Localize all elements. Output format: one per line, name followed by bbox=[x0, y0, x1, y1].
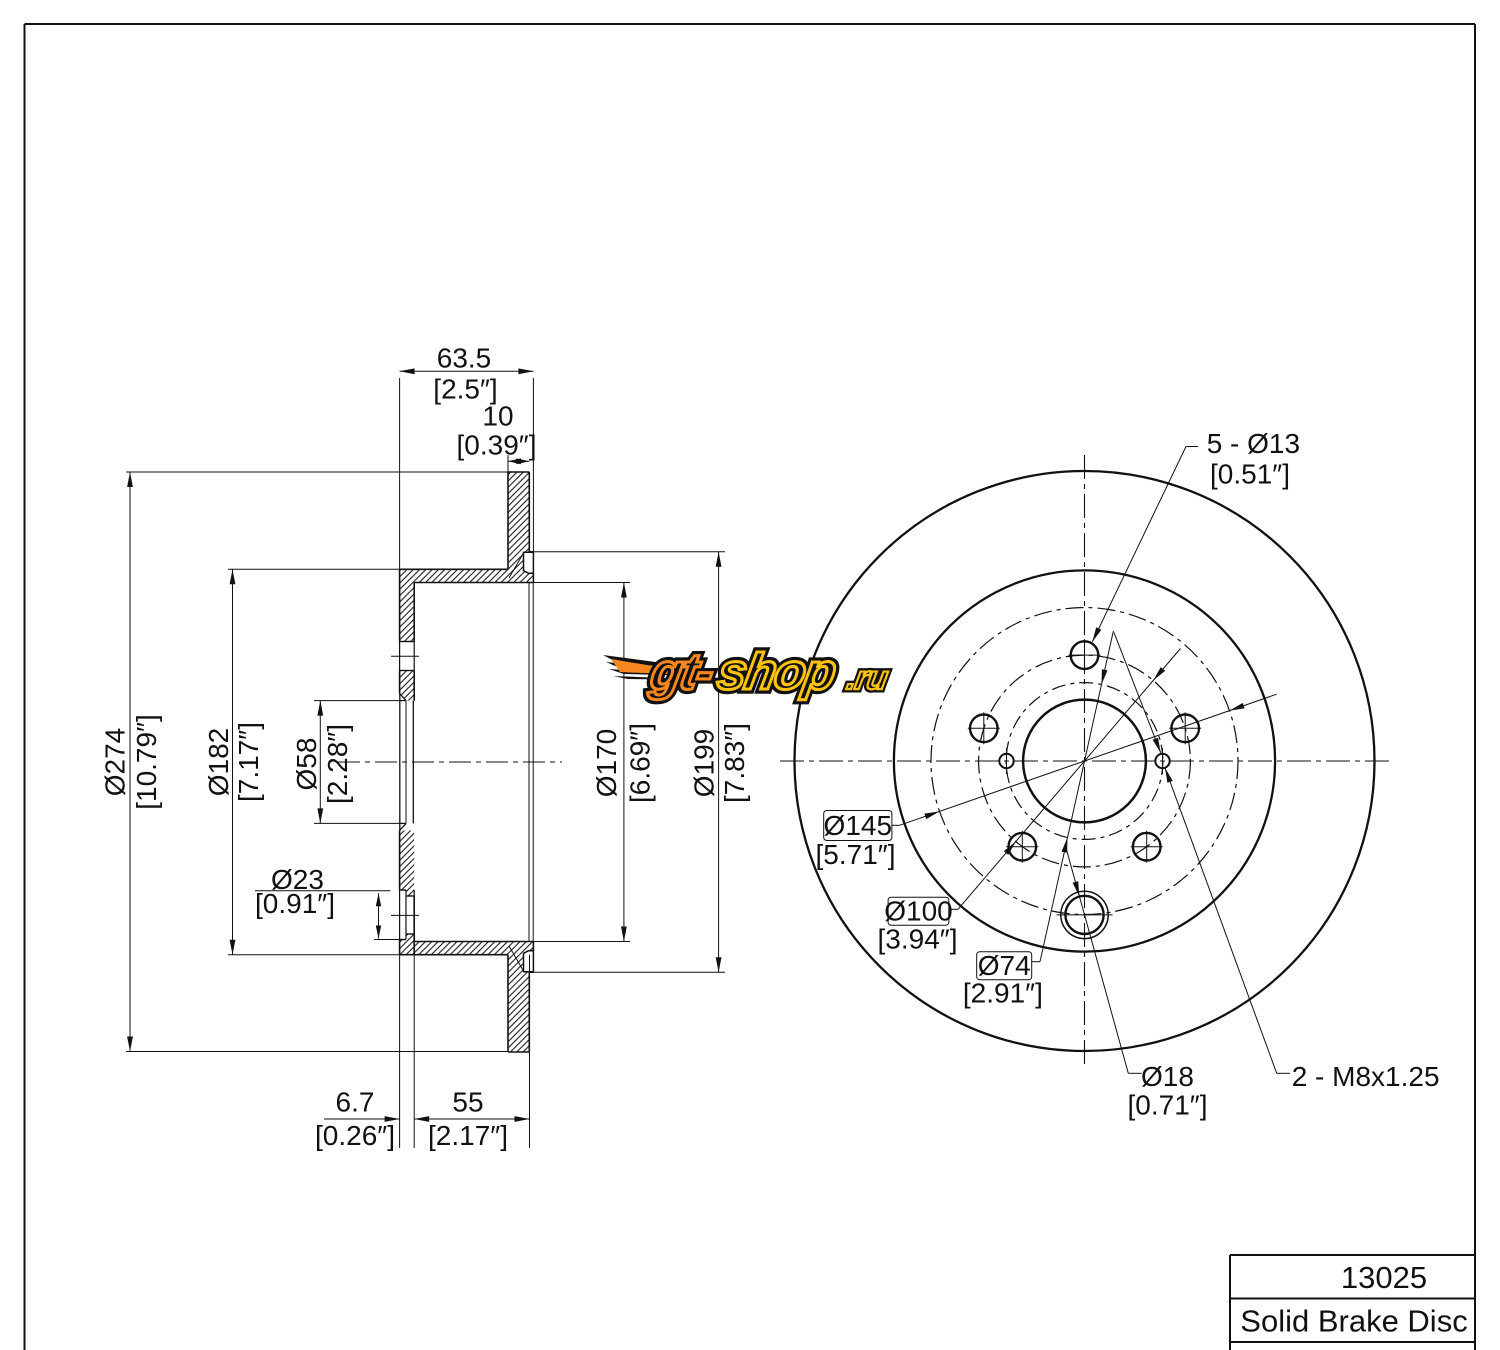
front: M8 service holes bbox=[999, 754, 1013, 768]
section: part outlines top half bbox=[508, 471, 529, 473]
svg-text:[0.91″]: [0.91″] bbox=[255, 888, 335, 919]
svg-text:Ø18: Ø18 bbox=[1141, 1061, 1194, 1092]
section: Ø18 hole centerline tick bbox=[391, 914, 419, 916]
dim Ø170 [6.69"] hat inner diameter bbox=[623, 583, 625, 942]
svg-text:Ø170: Ø170 bbox=[591, 729, 622, 798]
svg-text:Ø145: Ø145 bbox=[824, 810, 893, 841]
section: part outlines bottom half bbox=[508, 1051, 529, 1053]
section: lug bolt hole Ø13 cut (top) bbox=[400, 641, 415, 643]
svg-text:[2.28″]: [2.28″] bbox=[322, 724, 353, 804]
section: back-side groove (white notch, top) bbox=[524, 552, 534, 573]
svg-text:6.7: 6.7 bbox=[336, 1087, 375, 1118]
front: bolt circle Ø145 (dash-dot) bbox=[931, 608, 1238, 915]
svg-text:[6.69″]: [6.69″] bbox=[624, 723, 655, 803]
svg-text:shop: shop bbox=[714, 642, 840, 700]
front: label box Ø145 [5.71"] bbox=[824, 811, 892, 841]
svg-text:Ø199: Ø199 bbox=[689, 729, 720, 798]
section: Ø18 hole with Ø23 counterbore cut (bottom) bbox=[400, 889, 406, 891]
svg-text:[2.17″]: [2.17″] bbox=[428, 1120, 508, 1151]
svg-text:[5.71″]: [5.71″] bbox=[816, 839, 896, 870]
front: Ø100 dimension line bbox=[958, 649, 1181, 910]
dim 63.5 [2.5"] overall width bbox=[400, 370, 534, 372]
front: Ø145 dimension line bbox=[900, 694, 1277, 825]
front: lug hole Ø13 at 162deg bbox=[970, 715, 998, 743]
front: lug hole Ø13 at 90deg bbox=[1071, 641, 1099, 669]
svg-text:55: 55 bbox=[452, 1087, 483, 1118]
svg-text:gt-: gt- bbox=[646, 642, 718, 700]
front: lug hole Ø13 at 234deg bbox=[1009, 833, 1037, 861]
section: Ø58 bore chamfers and projected bore lines bbox=[400, 694, 406, 701]
section: plate-to-hat fillet diagonals bbox=[509, 553, 524, 578]
front: center bore Ø58 bbox=[1023, 700, 1146, 823]
title block bbox=[1230, 1254, 1475, 1256]
section: bore chamfer white cuts bbox=[400, 694, 406, 701]
front: circle Ø74 (dash-dot) bbox=[1006, 683, 1163, 840]
svg-text:2 - M8x1.25: 2 - M8x1.25 bbox=[1292, 1061, 1440, 1092]
svg-text:Ø74: Ø74 bbox=[978, 950, 1031, 981]
dim Ø274 [10.79"] outer diameter bbox=[129, 472, 131, 1052]
svg-text:[10.79″]: [10.79″] bbox=[131, 714, 162, 810]
svg-text:[0.39″]: [0.39″] bbox=[457, 430, 537, 461]
front: extra arrow segment to M8 hole top bbox=[1114, 633, 1161, 753]
svg-text:[0.26″]: [0.26″] bbox=[315, 1120, 395, 1151]
gt-shop.ru logo watermark bbox=[603, 642, 894, 700]
dim Ø199 [7.83"] step diameter bbox=[718, 552, 720, 972]
front: Ø18 hole with Ø23 counterbore (double ring) bbox=[1061, 891, 1108, 938]
dim Ø182 [7.17"] hat outer diameter bbox=[232, 569, 234, 954]
front: label box Ø74 [2.91"] bbox=[977, 952, 1032, 980]
svg-text:.ru: .ru bbox=[844, 660, 890, 697]
svg-text:[7.83″]: [7.83″] bbox=[719, 723, 750, 803]
svg-text:Ø100: Ø100 bbox=[884, 896, 953, 927]
svg-text:Solid Brake Disc: Solid Brake Disc bbox=[1240, 1304, 1467, 1339]
svg-text:[3.94″]: [3.94″] bbox=[878, 924, 958, 955]
section: friction disc plate (hatched) bbox=[508, 472, 529, 552]
svg-text:Ø182: Ø182 bbox=[203, 728, 234, 797]
section: Ø13 hole centerline tick bbox=[391, 655, 419, 657]
front: lug hole Ø13 at 18deg bbox=[1171, 715, 1199, 743]
front: outer circle Ø274 bbox=[795, 471, 1375, 1051]
svg-text:[2.91″]: [2.91″] bbox=[963, 978, 1043, 1009]
page border frame bbox=[25, 23, 1476, 25]
front: label box Ø100 [3.94"] bbox=[888, 897, 949, 925]
section: centerline bbox=[338, 761, 562, 763]
svg-text:Ø58: Ø58 bbox=[291, 738, 322, 791]
svg-text:Ø274: Ø274 bbox=[100, 728, 131, 797]
svg-text:[0.71″]: [0.71″] bbox=[1128, 1090, 1208, 1121]
svg-text:[7.17″]: [7.17″] bbox=[233, 722, 264, 802]
dim Ø58 [2.28"] center bore bbox=[319, 701, 321, 824]
svg-text:63.5: 63.5 bbox=[437, 343, 492, 374]
section: back-side groove (white notch, bottom) bbox=[524, 951, 534, 972]
front: bolt circle Ø100 (dash-dot) bbox=[979, 655, 1191, 867]
svg-text:13025: 13025 bbox=[1341, 1260, 1427, 1295]
svg-text:[0.51″]: [0.51″] bbox=[1210, 459, 1290, 490]
section: projected barrel-end lines inside hat bbox=[528, 583, 530, 942]
svg-text:5 - Ø13: 5 - Ø13 bbox=[1207, 428, 1300, 459]
front: Ø74 dimension line bbox=[1040, 631, 1113, 962]
front: hat circle Ø182 bbox=[894, 570, 1275, 951]
svg-text:10: 10 bbox=[482, 401, 513, 432]
front: lug hole Ø13 at 306deg bbox=[1133, 833, 1161, 861]
front: main centerlines bbox=[780, 760, 1392, 762]
